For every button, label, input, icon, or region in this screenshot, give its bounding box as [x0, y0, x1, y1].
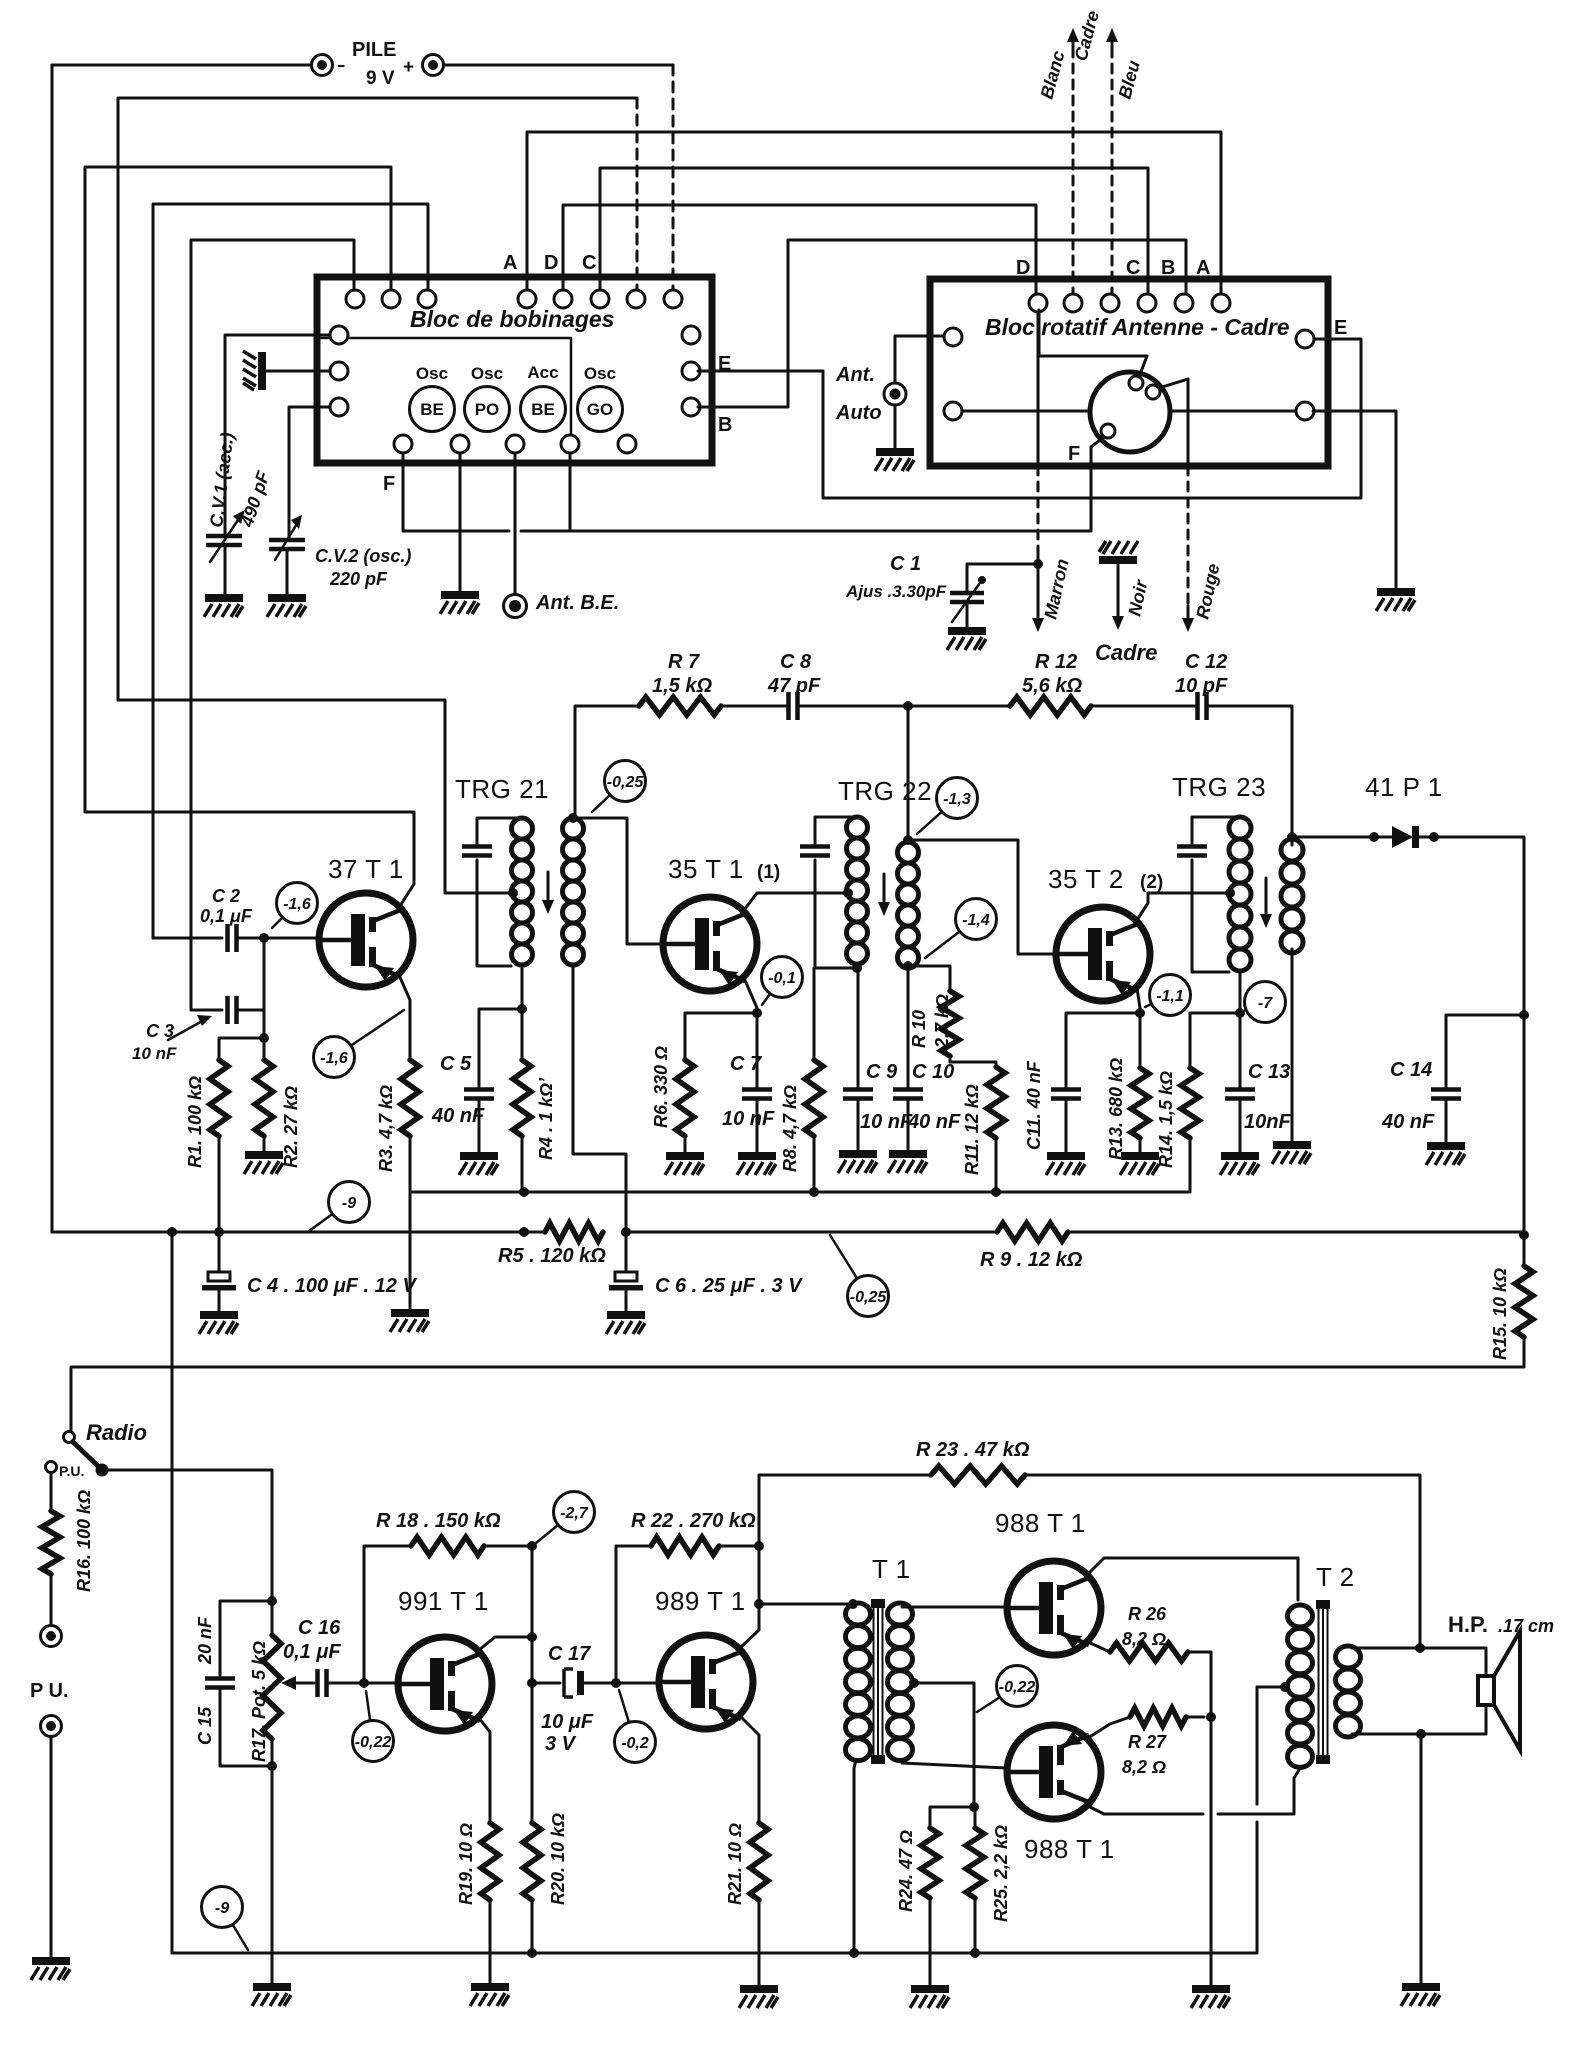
svg-text:-1,6: -1,6	[320, 1050, 348, 1067]
wire -9 rail segment 2	[219, 1231, 545, 1234]
wire TRG23 tuning cap bottom	[1192, 860, 1229, 972]
svg-text:R8. 4,7 kΩ: R8. 4,7 kΩ	[780, 1085, 800, 1172]
resistor R22 270k	[651, 1537, 759, 1555]
svg-text:10 nF: 10 nF	[132, 1044, 177, 1063]
junction rail R1/C4	[214, 1227, 224, 1237]
wire bobinages terminal4 to F line	[569, 453, 572, 531]
ground below output stage	[1191, 1985, 1230, 2008]
svg-text:Rouge: Rouge	[1192, 562, 1223, 621]
voltage bubble -9 audio	[202, 1887, 249, 1951]
pin rotatif top terminal x=1073	[1064, 294, 1082, 312]
ground below C5	[459, 1152, 498, 1175]
svg-text:-0,25: -0,25	[607, 774, 645, 791]
resistor R26 8.2	[1110, 1643, 1188, 1661]
wire C6 to ground	[625, 1290, 628, 1312]
ground below bobinages terminal2	[440, 591, 479, 614]
wire C13 top lead	[1239, 1013, 1242, 1089]
svg-text:R20. 10 kΩ: R20. 10 kΩ	[548, 1813, 568, 1905]
wire C2 to base junction	[237, 937, 264, 940]
wire 37T1 emitter	[399, 975, 410, 1060]
arrow Rouge	[1182, 606, 1194, 632]
junction switch common	[96, 1464, 109, 1477]
svg-text:Auto: Auto	[835, 402, 882, 424]
wire bus 2 from 37T1 collector net	[85, 167, 391, 812]
ground below C13	[1220, 1152, 1259, 1175]
pin bobinages right terminal y=371	[682, 362, 700, 380]
capacitor TRG23 tuning	[1177, 847, 1207, 856]
junction R4 bias line	[519, 1187, 529, 1197]
svg-text:Radio: Radio	[86, 1420, 147, 1445]
wire -9 rail segment 1	[52, 1231, 219, 1234]
wire C10 to ground	[907, 1099, 910, 1152]
junction C14 takeoff	[1519, 1010, 1529, 1020]
capacitor C3 10nF	[228, 996, 237, 1024]
svg-text:10 nF: 10 nF	[860, 1111, 913, 1133]
wire junction to R1 top	[219, 1037, 264, 1040]
svg-text:R24. 47 Ω: R24. 47 Ω	[896, 1830, 916, 1912]
svg-text:-1,6: -1,6	[283, 896, 311, 913]
svg-text:C 15: C 15	[195, 1706, 215, 1745]
wire bottom -9 rail	[172, 1952, 1257, 1955]
wire battery+ to bobinages terminal 8 (dashed)	[672, 65, 675, 290]
svg-text:-0,2: -0,2	[621, 1735, 649, 1752]
wire R23 row right	[1025, 1475, 1420, 1644]
ground Noir (flipped)	[1099, 541, 1138, 564]
pin bobinages top terminal x=673	[664, 290, 682, 308]
terminal Ant. B.E.	[504, 595, 527, 618]
wire Ant BE drop	[514, 453, 517, 594]
capacitor C7 10nF	[742, 1090, 772, 1099]
wiper arrow R17	[281, 1676, 314, 1690]
wire 988 lower collector to T2	[1218, 1770, 1299, 1814]
svg-text:C 7: C 7	[730, 1053, 762, 1075]
svg-text:Osc: Osc	[416, 364, 448, 383]
svg-text:C 14: C 14	[1390, 1059, 1432, 1081]
transistor 988T1 upper	[1007, 1561, 1101, 1655]
diode 41P1	[1392, 826, 1419, 848]
ground below C1	[947, 627, 986, 650]
voltage bubble -1.6 base	[272, 883, 318, 929]
inductor T2 secondary	[1336, 1646, 1361, 1737]
svg-text:R15. 10 kΩ: R15. 10 kΩ	[1490, 1268, 1510, 1360]
wire TRG23 to diode	[1292, 836, 1392, 839]
wire net F continued	[521, 530, 1091, 533]
wire R21 to ground	[758, 1900, 761, 1986]
module box Bloc rotatif Antenne-Cadre	[930, 279, 1328, 466]
wire net F riser to rotor	[1090, 447, 1093, 531]
inductor T1 secondary	[888, 1603, 913, 1761]
svg-text:Bloc de bobinages: Bloc de bobinages	[410, 306, 614, 332]
wire net C between blocks	[600, 168, 1148, 294]
svg-text:P U.: P U.	[30, 1680, 69, 1702]
switch lever	[71, 1440, 101, 1469]
svg-text:-0,1: -0,1	[768, 970, 796, 987]
svg-text:10nF: 10nF	[1244, 1111, 1291, 1133]
wire T1 tap to R24/R25	[914, 1683, 974, 1807]
wire rotor right lead	[1170, 410, 1296, 413]
wire R23 row left	[759, 1474, 931, 1477]
resistor R7 1.5k	[639, 697, 788, 715]
svg-text:C: C	[1126, 257, 1140, 279]
wire rotatif right terminal2 to ground	[1313, 411, 1396, 588]
svg-text:3 V: 3 V	[545, 1733, 577, 1755]
wire bobinages terminal2 to ground	[459, 453, 462, 592]
pin rotatif top terminal x=1110	[1101, 294, 1119, 312]
wire R20 top lead	[531, 1683, 534, 1823]
wire bus 4 to C2	[153, 204, 428, 938]
junction 991T1 base	[359, 1678, 369, 1688]
ground below R19	[470, 1983, 509, 2006]
inductor T2 primary	[1288, 1605, 1313, 1767]
wire T2 tap feed lower	[1256, 1822, 1259, 1953]
svg-text:D: D	[1016, 257, 1030, 279]
wire C17 left lead	[532, 1682, 560, 1685]
svg-text:Osc: Osc	[471, 364, 503, 383]
wire rail right end riser	[1256, 1687, 1259, 1804]
wire oscillator feed to TRG21 tap	[118, 700, 513, 893]
wire C1 to ground	[966, 602, 969, 628]
pin bobinages right terminal y=407	[682, 398, 700, 416]
pin rotatif left terminal 1	[944, 328, 962, 346]
wire switch to volume	[102, 1470, 272, 1601]
svg-text:-7: -7	[1258, 995, 1273, 1012]
wire Marron dashed	[1037, 466, 1040, 556]
arrow coupling TRG23	[1260, 878, 1272, 928]
pin bobinages right terminal y=335	[682, 326, 700, 344]
wire C2 base feed	[153, 937, 222, 940]
svg-text:-1,1: -1,1	[1156, 988, 1184, 1005]
svg-text:10 μF: 10 μF	[541, 1711, 594, 1733]
resistor R5 120k	[545, 1223, 603, 1241]
wire R26 to junction	[1188, 1652, 1211, 1717]
potentiometer R17 5k	[263, 1601, 281, 1766]
svg-text:R 22 . 270 kΩ: R 22 . 270 kΩ	[631, 1510, 756, 1532]
svg-text:-0,25: -0,25	[850, 1289, 888, 1306]
wire junction to R14	[1190, 1013, 1240, 1068]
transistor 989T1	[659, 1635, 753, 1729]
wire TRG22 secondary to 35T2 base	[908, 840, 1056, 954]
terminal P.U. input 2	[41, 1716, 62, 1737]
wire TRG21 primary bottom to C5/R4	[479, 966, 522, 1089]
junction 37T1 base	[259, 933, 269, 943]
svg-text:Blanc: Blanc	[1037, 48, 1069, 101]
ground below right box	[1376, 588, 1415, 611]
resistor R20 10k	[523, 1823, 541, 1900]
svg-text:C 17: C 17	[548, 1643, 591, 1665]
svg-text:R21. 10 Ω: R21. 10 Ω	[725, 1823, 745, 1905]
range circle PO	[465, 387, 510, 432]
pin rotor contact 1	[1129, 376, 1143, 390]
wire R11 bottom lead	[995, 1138, 998, 1192]
junction TRG22 bottom network	[852, 963, 862, 973]
wire TRG22 tuning cap top	[815, 817, 857, 846]
svg-text:C 12: C 12	[1185, 651, 1227, 673]
svg-text:T 1: T 1	[872, 1554, 911, 1584]
wire TRG21 secondary bottom to rail	[573, 966, 626, 1232]
resistor R14 1.5k	[1181, 1068, 1199, 1138]
arrow coupling TRG22	[878, 874, 890, 916]
pin rotatif top terminal x=1147	[1138, 294, 1156, 312]
ground below R21	[739, 1985, 778, 2008]
wire ant auto to ground	[894, 405, 897, 450]
wire C.V.2 top to box terminal	[289, 407, 330, 540]
svg-text:Noir: Noir	[1124, 577, 1151, 617]
wire rail right segment to TRG23 secondary	[1207, 706, 1292, 845]
svg-text:2,7 kΩ: 2,7 kΩ	[932, 994, 952, 1049]
voltage bubble -7	[1244, 982, 1286, 1023]
wire 37T1 collector	[85, 812, 414, 906]
svg-text:8,2 Ω: 8,2 Ω	[1122, 1629, 1166, 1649]
junction R25 rail	[970, 1948, 980, 1958]
junction TRG21 secondary top	[568, 813, 578, 823]
wire Blanc dashed	[1072, 48, 1075, 294]
pin bobinages top terminal x=355	[346, 290, 364, 308]
svg-text:B: B	[718, 414, 732, 436]
svg-text:P.U.: P.U.	[59, 1463, 84, 1479]
wire net E between blocks	[698, 339, 1361, 498]
resistor R11 12k	[987, 1067, 1005, 1138]
junction R26/R27	[1206, 1712, 1216, 1722]
range circle BE acc	[521, 387, 566, 432]
svg-text:(1): (1)	[757, 862, 780, 883]
junction R11 bias line	[991, 1187, 1001, 1197]
wire R24 to ground	[929, 1898, 932, 1986]
ground below C10	[888, 1150, 927, 1173]
ground below R13	[1120, 1152, 1159, 1175]
capacitor TRG21 tuning	[462, 847, 492, 856]
wire bus 5 to C3	[191, 240, 354, 1010]
wire Bleu dashed	[1111, 48, 1114, 294]
wire ground to bobinages left terminal 2	[266, 370, 332, 373]
svg-text:R4 . 1 kΩ’: R4 . 1 kΩ’	[536, 1077, 556, 1160]
voltage bubble -1.4	[925, 899, 997, 959]
voltage bubble -0.22 991	[353, 1691, 394, 1762]
capacitor C4 electrolytic	[202, 1272, 236, 1291]
junction 989 collector	[754, 1599, 764, 1609]
wire C14 top lead	[1446, 1015, 1524, 1089]
pin rotatif top terminal x=1221	[1212, 294, 1230, 312]
svg-text:988 T 1: 988 T 1	[1024, 1834, 1115, 1864]
pin bobinages bottom terminal x=627	[618, 435, 636, 453]
junction TRG22 primary tap	[843, 888, 853, 898]
pin rotatif right terminal 2	[1296, 402, 1314, 420]
wire net A between blocks	[527, 132, 1221, 294]
terminal P.U. input 1	[41, 1626, 62, 1647]
wire rail to TRG22 secondary top	[907, 706, 910, 842]
svg-text:BE: BE	[531, 400, 555, 419]
junction HP top	[1415, 1643, 1425, 1653]
resistor R15 10k	[1515, 1266, 1533, 1337]
svg-text:Acc: Acc	[527, 363, 558, 382]
wire C15 bottom	[220, 1689, 272, 1766]
svg-text:-9: -9	[342, 1195, 356, 1212]
core T1	[871, 1599, 885, 1764]
wire rail junction to R12	[908, 705, 1010, 708]
core T2	[1316, 1600, 1330, 1764]
svg-text:Osc: Osc	[584, 364, 616, 383]
svg-text:C.V.2 (osc.): C.V.2 (osc.)	[315, 546, 411, 566]
junction R1 R2 C3	[259, 1033, 269, 1043]
svg-text:BE: BE	[420, 400, 444, 419]
wire C9 to ground	[857, 1099, 860, 1152]
wire bias line	[410, 1191, 1190, 1194]
ground below R3	[390, 1309, 429, 1332]
resistor R23 47k	[931, 1466, 1025, 1484]
wire volume bottom to ground	[271, 1766, 274, 1984]
wire PU2 to ground	[50, 1737, 53, 1958]
wire bus 3 dashed drop to terminal	[636, 98, 639, 290]
svg-text:-1,4: -1,4	[962, 912, 990, 929]
ground below P.U.	[31, 1957, 70, 1980]
ground below C.V.1	[204, 594, 243, 617]
ground below TRG23 secondary	[1272, 1141, 1311, 1164]
wire C3 left lead	[191, 1009, 222, 1012]
wire -9 rail segment 3	[626, 1231, 997, 1234]
transistor 35T1	[663, 897, 757, 991]
transistor 35T2	[1056, 907, 1150, 1001]
junction rail R5 right / C6	[621, 1227, 631, 1237]
svg-text:PO: PO	[475, 400, 500, 419]
wire base junction to 37T1	[264, 937, 319, 940]
svg-text:37 T 1: 37 T 1	[328, 854, 404, 884]
arrow Noir	[1112, 562, 1124, 630]
wire TRG22 primary bottom to R8	[814, 968, 857, 1060]
wire rotor contact2 to Rouge	[1159, 379, 1188, 388]
resistor R18 150k	[411, 1537, 532, 1555]
capacitor C11 40nF	[1051, 1090, 1081, 1099]
wire R20 bottom lead	[531, 1900, 534, 1953]
wire rail C8 to junction	[798, 705, 908, 708]
svg-text:Marron: Marron	[1040, 557, 1072, 621]
capacitor C2 0.1uF	[228, 924, 237, 952]
wire bus 1 (PILE- rail) vertical	[51, 65, 54, 1232]
capacitor TRG22 tuning	[800, 847, 830, 856]
svg-text:490 pF: 490 pF	[236, 468, 273, 530]
terminal PILE - (battery negative)	[312, 55, 333, 76]
svg-text:-1,3: -1,3	[943, 791, 971, 808]
wire rotor left lead	[962, 410, 1090, 413]
wire R3 bottom to ground	[409, 1192, 412, 1310]
junction TRG23 primary tap	[1225, 888, 1235, 898]
wire 991T1 collector	[479, 1637, 532, 1650]
svg-text:40 nF: 40 nF	[1381, 1111, 1435, 1133]
svg-text:R14. 1,5 kΩ: R14. 1,5 kΩ	[1156, 1071, 1176, 1168]
range circle BE osc	[410, 387, 455, 432]
svg-text:R17. Pot. 5 kΩ: R17. Pot. 5 kΩ	[249, 1641, 269, 1762]
wire HP bottom to ground	[1420, 1734, 1423, 1984]
svg-text:H.P.: H.P.	[1448, 1612, 1488, 1637]
wire TRG23 secondary bottom to ground	[1291, 949, 1294, 1143]
pin rotor contact 2	[1146, 385, 1160, 399]
resistor R19 10	[481, 1823, 499, 1900]
wire C7 to ground	[756, 1099, 759, 1154]
variable capacitor C.V.2 220pF	[269, 515, 305, 560]
transistor 991T1	[398, 1637, 492, 1731]
resistor R12 5.6k	[1010, 697, 1197, 715]
wire TRG22 secondary bottom to R10	[908, 966, 950, 991]
junction C17 left / R20	[527, 1678, 537, 1688]
junction R20 rail	[527, 1948, 537, 1958]
wire C9 top lead	[857, 968, 860, 1089]
junction TRG21 primary tap	[508, 888, 518, 898]
ground at bobinages left terminal	[243, 351, 266, 390]
svg-text:C 9: C 9	[866, 1061, 898, 1083]
svg-text:8,2 Ω: 8,2 Ω	[1122, 1757, 1166, 1777]
svg-text:220 pF: 220 pF	[329, 569, 388, 589]
svg-text:R6. 330 Ω: R6. 330 Ω	[651, 1046, 671, 1128]
speaker H.P.	[1478, 1631, 1520, 1750]
svg-text:Ant.: Ant.	[835, 364, 875, 386]
transistor 37T1	[319, 893, 413, 987]
svg-text:R5 . 120 kΩ: R5 . 120 kΩ	[498, 1245, 606, 1267]
svg-text:F: F	[383, 473, 395, 495]
capacitor C16 0.1uF	[318, 1669, 327, 1697]
wire Marron inside box	[1037, 312, 1040, 466]
junction T1 primary top	[848, 1599, 858, 1609]
wire C.V.1 to ground	[224, 556, 227, 596]
junction T1 primary bottom rail	[849, 1948, 859, 1958]
svg-text:10 nF: 10 nF	[722, 1108, 775, 1130]
wire bus 3 oscillator feed	[118, 98, 637, 700]
transistor 988T1 lower	[1007, 1725, 1101, 1819]
resistor R27 8.2	[1130, 1708, 1204, 1726]
svg-text:R 10: R 10	[909, 1010, 929, 1048]
wire T2 tap feed upper	[1257, 1687, 1285, 1804]
wire C4 to ground	[218, 1290, 221, 1312]
ground below C9	[838, 1150, 877, 1173]
junction 989T1 base	[611, 1678, 621, 1688]
svg-text:R2. 27 kΩ: R2. 27 kΩ	[281, 1086, 301, 1168]
capacitor C17 10uF	[564, 1669, 584, 1697]
ground below C14	[1426, 1142, 1465, 1165]
wire R15 leads	[1523, 1235, 1526, 1266]
wire IF top rail left segment	[575, 706, 639, 817]
inductor TRG23 secondary	[1281, 839, 1303, 953]
wire R25 bottom lead	[974, 1898, 977, 1953]
wire junction to ground	[1210, 1717, 1213, 1986]
svg-text:C 6 . 25 μF . 3 V: C 6 . 25 μF . 3 V	[655, 1275, 803, 1297]
svg-text:R 9 . 12 kΩ: R 9 . 12 kΩ	[980, 1249, 1083, 1271]
svg-text:1,5 kΩ: 1,5 kΩ	[652, 675, 712, 697]
pin bobinages bottom terminal x=460	[451, 435, 469, 453]
wire C14 to ground	[1445, 1099, 1448, 1143]
svg-text:Ant. B.E.: Ant. B.E.	[535, 592, 619, 614]
wire C.V.1 top to box terminal	[225, 335, 330, 536]
wire R25 top lead	[974, 1807, 977, 1828]
voltage bubble -1.6 emitter	[314, 1010, 405, 1078]
wire R18 feedback	[364, 1546, 411, 1683]
svg-text:.17 cm: .17 cm	[1498, 1616, 1554, 1636]
svg-text:988 T 1: 988 T 1	[995, 1508, 1086, 1538]
wire emitter junction to R6	[685, 1012, 757, 1015]
arrow C3 pointer	[168, 1015, 212, 1040]
junction Marron / C1	[1033, 559, 1043, 569]
wire 989T1 collector	[740, 1604, 759, 1648]
svg-text:5,6 kΩ: 5,6 kΩ	[1022, 675, 1082, 697]
capacitor C15 20nF	[205, 1679, 235, 1688]
wire net F between blocks	[403, 453, 509, 531]
capacitor C14 40nF	[1431, 1090, 1461, 1099]
resistor R24 47	[921, 1828, 939, 1898]
svg-text:R 7: R 7	[668, 651, 700, 673]
wire T1 secondary top to 988 base	[902, 1606, 1006, 1609]
svg-text:TRG 22: TRG 22	[838, 776, 932, 806]
pin bobinages left terminal y=335	[330, 326, 348, 344]
wire R24 top lead	[930, 1807, 974, 1828]
junction TRG21 bottom network	[517, 1004, 527, 1014]
junction rail bus drop	[167, 1227, 177, 1237]
inductor TRG21 primary	[512, 818, 533, 965]
